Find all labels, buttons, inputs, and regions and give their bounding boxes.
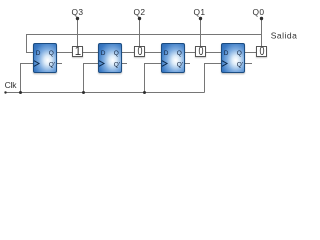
svg-text:Q: Q [114,50,119,57]
wire clock riser to FF2 [84,64,99,93]
svg-text:Q2: Q2 [134,7,146,17]
svg-text:Q: Q [49,50,54,57]
node Q2 terminal dot [138,17,141,20]
junction clock/riser3 [143,91,146,94]
wire feedback Salida: Q0 node down-left to D of FF1 [27,35,262,53]
wire FF3 Q to probe P3 [185,52,196,54]
wire vertical Q2 probe to terminal [139,18,141,47]
svg-text:Q3: Q3 [72,7,84,17]
svg-text:D: D [101,50,106,57]
wire FF1 Q to probe P1 [57,52,73,54]
probe P1 value 1 [73,46,83,58]
svg-text:1: 1 [75,46,81,58]
wire stub FF1 Q' [57,63,63,65]
svg-text:Q: Q [237,50,242,57]
svg-text:0: 0 [199,46,204,58]
probe P3 value 0 [196,46,206,58]
svg-text:0: 0 [138,46,143,58]
svg-text:Q': Q' [237,61,243,68]
node Q1 terminal dot [199,17,202,20]
wire probe P2 to FF3 D [145,52,162,54]
wire vertical Q0 probe to terminal (Salida node) [261,18,263,47]
svg-text:0: 0 [260,46,265,58]
junction clock/riser2 [82,91,85,94]
wire clock trunk Clk [6,92,205,94]
svg-text:Q1: Q1 [194,7,206,17]
wire clock riser to FF4 [205,64,222,93]
wire stub FF4 Q' [245,63,253,65]
svg-text:Q': Q' [114,61,120,68]
junction clock/riser1 [19,91,22,94]
wire stub FF3 Q' [185,63,191,65]
svg-text:Q: Q [177,50,182,57]
svg-text:D: D [36,50,41,57]
svg-text:Q': Q' [49,61,55,68]
wire stub FF2 Q' [122,63,128,65]
probe P4 value 0 [257,46,267,58]
wire FF2 Q to probe P2 [122,52,135,54]
node Q0 terminal dot [260,17,263,20]
svg-text:D: D [224,50,229,57]
svg-text:Q0: Q0 [253,7,265,17]
wire probe P1 to FF2 D [83,52,99,54]
wire probe P3 to FF4 D [206,52,222,54]
wire clock riser to FF1 [21,64,34,93]
wire vertical Q1 probe to terminal [200,18,202,47]
svg-text:Salida: Salida [271,30,298,40]
svg-text:Q': Q' [177,61,183,68]
node Q3 terminal dot [76,17,79,20]
node Clk terminal dot [4,91,6,93]
wire vertical Q3 probe to terminal [77,18,79,47]
flip-flop FF1 [34,44,57,73]
wire FF4 Q to probe P4 [245,52,257,54]
flip-flop FF2 [99,44,122,73]
svg-text:Clk: Clk [5,80,18,90]
flip-flop FF3 [162,44,185,73]
probe P2 value 0 [135,46,145,58]
svg-text:D: D [164,50,169,57]
wire clock riser to FF3 [145,64,162,93]
flip-flop FF4 [222,44,245,73]
